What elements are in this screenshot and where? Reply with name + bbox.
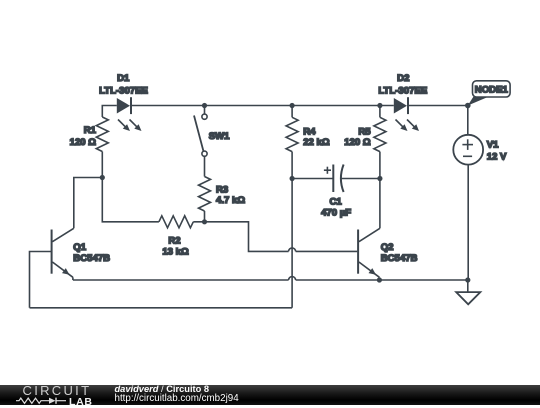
label R2 (162, 236, 189, 258)
LED D1 (117, 97, 142, 131)
wire emitter rail with hop (73, 277, 468, 281)
wire bottom run to center riser (30, 307, 293, 309)
label Q1 (73, 242, 110, 264)
svg-text:13 kΩ: 13 kΩ (162, 247, 189, 258)
label R1 (70, 125, 97, 148)
svg-text:D2: D2 (397, 73, 409, 84)
wire R2 to Q2 base with hop (193, 222, 357, 252)
label R5 (344, 127, 371, 149)
wire top-left corner to D1 anode (102, 106, 117, 118)
resistor R3 (199, 177, 211, 222)
node junction R5 top (377, 103, 382, 108)
svg-text:Q1: Q1 (73, 242, 86, 253)
svg-text:R3: R3 (216, 185, 228, 196)
svg-text:R1: R1 (84, 125, 97, 136)
label R3 (216, 185, 245, 207)
label Q2 (381, 242, 418, 264)
resistor R5 (374, 106, 386, 179)
svg-text:12 V: 12 V (487, 152, 507, 163)
svg-text:R4: R4 (303, 127, 316, 138)
label D1 (99, 73, 148, 97)
wire center riser C1 left to bottom run (291, 179, 293, 308)
wire top rail from D1 cathode to D2 anode (131, 105, 394, 107)
CircuitLab logo (23, 383, 92, 398)
svg-text:C1: C1 (329, 197, 342, 208)
node junction ground (465, 277, 470, 282)
svg-text:BC547B: BC547B (381, 253, 418, 264)
svg-text:470 µF: 470 µF (321, 208, 351, 219)
attribution text (115, 384, 210, 394)
transistor Q2 (358, 228, 380, 280)
label R4 (303, 127, 330, 149)
wire Q1 base to left riser (30, 252, 52, 308)
wire R1 bottom down to R2 level (102, 152, 159, 222)
LED D2 (394, 97, 419, 131)
transistor Q1 (52, 228, 74, 280)
svg-text:R5: R5 (358, 127, 371, 138)
resistor R1 (96, 117, 108, 152)
svg-text:D1: D1 (117, 73, 130, 84)
label D2 (378, 73, 427, 97)
node junction Q2 emitter (377, 277, 382, 282)
node junction R3 bottom (202, 219, 207, 224)
voltage source V1 (453, 106, 483, 281)
svg-text:Q2: Q2 (381, 242, 394, 253)
svg-text:120 Ω: 120 Ω (344, 137, 371, 148)
label C1 (321, 197, 351, 219)
svg-text:R2: R2 (168, 236, 180, 247)
svg-text:22 kΩ: 22 kΩ (303, 137, 330, 148)
svg-text:NODE1: NODE1 (475, 84, 509, 95)
svg-text:4.7 kΩ: 4.7 kΩ (216, 195, 245, 206)
wire C1 right down to Q2 collector (379, 179, 381, 229)
resistor R2 (159, 216, 193, 228)
resistor R4 (286, 106, 298, 179)
node junction R1/collector stub (100, 175, 105, 180)
svg-text:BC547B: BC547B (73, 253, 110, 264)
svg-text:LTL-307EE: LTL-307EE (99, 86, 148, 97)
wire stub to Q1 collector (74, 178, 103, 229)
svg-text:120 Ω: 120 Ω (70, 137, 97, 148)
node junction SW1 top (202, 103, 207, 108)
node NODE1 junction (465, 103, 471, 109)
ground (456, 280, 480, 304)
wire top rail from D2 cathode to NODE1 junction (408, 105, 468, 107)
svg-text:V1: V1 (487, 140, 499, 151)
node junction R4 top (290, 103, 295, 108)
capacitor C1 (292, 165, 380, 193)
label SW1 (209, 131, 230, 142)
label V1 (487, 140, 507, 163)
switch SW1 (194, 106, 207, 177)
svg-text:LTL-307EE: LTL-307EE (378, 86, 427, 97)
node flag NODE1 (468, 81, 510, 106)
svg-text:SW1: SW1 (209, 131, 230, 142)
node junction C1 left (290, 176, 295, 181)
node junction C1 right (377, 176, 382, 181)
